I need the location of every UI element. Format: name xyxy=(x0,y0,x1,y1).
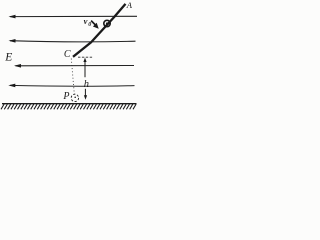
svg-text:0: 0 xyxy=(88,22,91,28)
svg-text:v: v xyxy=(84,16,88,26)
svg-text:E: E xyxy=(4,51,12,63)
svg-text:h: h xyxy=(84,79,89,90)
svg-text:A: A xyxy=(126,0,133,10)
svg-text:P: P xyxy=(62,91,69,102)
svg-text:C: C xyxy=(64,49,71,60)
